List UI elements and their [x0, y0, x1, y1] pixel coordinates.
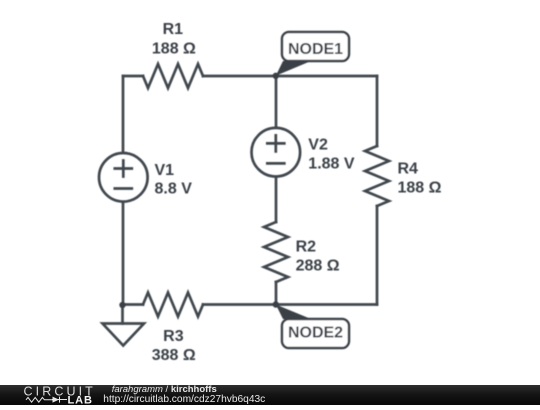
resistor R3 [143, 293, 203, 317]
svg-text:388 Ω: 388 Ω [152, 347, 196, 364]
ground [103, 324, 145, 346]
svg-text:R4: R4 [398, 161, 419, 178]
node NODE1 callout [276, 32, 349, 76]
svg-text:R3: R3 [163, 328, 184, 345]
node junction dot NODE2 [273, 301, 279, 307]
svg-text:R2: R2 [296, 238, 317, 255]
svg-text:V2: V2 [308, 137, 328, 154]
voltage source V2 [251, 128, 300, 177]
svg-text:V1: V1 [155, 162, 175, 179]
voltage source V1 [99, 153, 148, 202]
wire top horizontal to right [203, 75, 377, 78]
wire middle vertical lower [275, 282, 278, 305]
svg-text:188 Ω: 188 Ω [398, 179, 442, 196]
svg-text:http://circuitlab.com/cdz27hvb: http://circuitlab.com/cdz27hvb6q43c [103, 394, 265, 405]
svg-text:LAB: LAB [68, 395, 93, 406]
svg-text:8.8 V: 8.8 V [155, 181, 193, 198]
node junction dot ground [119, 302, 125, 308]
wire ground stub [121, 305, 124, 324]
svg-text:R1: R1 [163, 21, 184, 38]
footer bar [0, 385, 540, 405]
svg-text:288 Ω: 288 Ω [296, 257, 340, 274]
svg-text:1.88 V: 1.88 V [308, 155, 355, 172]
wire bottom left horizontal [123, 303, 143, 306]
wire middle vertical upper [275, 76, 278, 127]
svg-text:188 Ω: 188 Ω [152, 40, 196, 57]
wire middle vertical between V2 and R2 [275, 178, 278, 222]
resistor R4 [365, 146, 389, 206]
wire right vertical lower [376, 206, 379, 305]
svg-text:NODE1: NODE1 [288, 41, 343, 58]
wire bottom right horizontal [203, 303, 377, 306]
wire left vertical upper [122, 76, 125, 152]
resistor R1 [143, 64, 203, 88]
wire right vertical upper [376, 76, 379, 146]
svg-text:NODE2: NODE2 [288, 325, 343, 342]
resistor R2 [264, 222, 288, 282]
wire left vertical lower [122, 203, 125, 305]
node NODE2 callout [276, 305, 349, 349]
wire top-left horizontal [123, 75, 143, 78]
node junction dot NODE1 [273, 73, 279, 79]
footer logo resistor-diode symbol [26, 397, 67, 403]
